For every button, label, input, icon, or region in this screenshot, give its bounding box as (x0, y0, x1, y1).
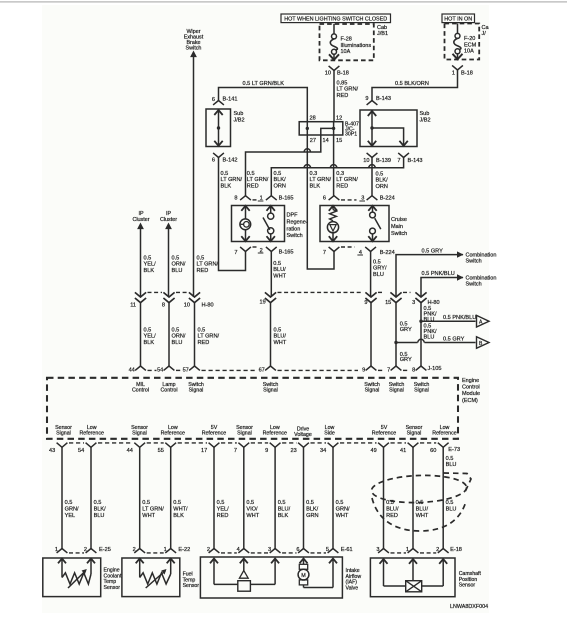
svg-text:J/B2: J/B2 (234, 118, 245, 124)
svg-text:9: 9 (364, 300, 367, 306)
junction block Sub J/B2 right (360, 110, 417, 147)
svg-text:J/: J/ (482, 31, 487, 37)
svg-text:LT GRN/: LT GRN/ (247, 177, 269, 183)
svg-text:0.5: 0.5 (197, 256, 205, 262)
wire 0.5 PNK/BLU from connector 3 to J-105 pin 8 (420, 303, 422, 366)
svg-text:WHT: WHT (416, 513, 429, 519)
svg-text:LT GRN/: LT GRN/ (197, 262, 219, 268)
svg-text:BLU/: BLU/ (273, 267, 286, 273)
svg-text:LT GRN/: LT GRN/ (142, 506, 164, 512)
hop of LT GRN/RED wire over pin-27 wire (304, 149, 310, 152)
CPS internal wire pin 2 (442, 559, 444, 586)
svg-text:0.5: 0.5 (94, 500, 102, 506)
svg-text:27: 27 (310, 138, 316, 144)
svg-text:BLU/: BLU/ (386, 506, 399, 512)
svg-text:0.3: 0.3 (310, 171, 318, 177)
svg-text:60: 60 (430, 448, 436, 454)
junction block Sub J/B2 left (206, 109, 231, 147)
svg-text:Main: Main (391, 224, 403, 230)
svg-text:6: 6 (296, 547, 299, 553)
ECM pin 34 (328, 443, 339, 448)
wire 0.5 BLK/GRN ECM to sensor at x303.5 (303, 447, 305, 548)
svg-text:Cruise: Cruise (391, 217, 407, 223)
svg-text:LT GRN/: LT GRN/ (337, 87, 359, 93)
connector E-61 pin 4 (238, 549, 249, 553)
svg-text:LT GRN/: LT GRN/ (198, 334, 220, 340)
connector E-61 pin 6 (298, 549, 309, 553)
svg-text:B-224: B-224 (380, 196, 395, 202)
connector B-224 pin 6 (329, 196, 340, 200)
svg-text:RED: RED (198, 340, 210, 346)
svg-text:15: 15 (336, 138, 342, 144)
svg-text:14: 14 (323, 138, 329, 144)
wire from connector 9 to J-105 pin 9 (370, 303, 372, 366)
svg-text:Switch: Switch (466, 258, 482, 264)
svg-text:WHT: WHT (336, 513, 349, 519)
arrow to IP Cluster left (137, 223, 144, 230)
svg-text:H-80: H-80 (202, 302, 214, 308)
sensor box Fuel Temp Sensor (122, 558, 180, 597)
svg-text:B-143: B-143 (376, 96, 391, 102)
svg-text:0.5: 0.5 (278, 500, 286, 506)
svg-text:0.5: 0.5 (373, 260, 381, 266)
svg-text:B-143: B-143 (408, 158, 423, 164)
svg-text:9: 9 (362, 368, 365, 374)
svg-text:B-139: B-139 (376, 158, 391, 164)
connector B-141 pin 6 (213, 101, 224, 105)
ECM pin 60 (438, 443, 449, 448)
ECM pin 7 (238, 443, 249, 448)
svg-text:YEL/: YEL/ (144, 334, 157, 340)
connector B-165 pin 1 (underlined) (266, 196, 277, 200)
wire 0.5 BLU/WHT from connector 19 to ECM pin 67 (270, 303, 272, 366)
ECM pin 67 (265, 366, 276, 370)
shielded cable symbol around camshaft sensor wires (371, 474, 467, 504)
svg-text:Signal: Signal (365, 387, 380, 393)
connector E-18 pin 1 (408, 549, 419, 553)
svg-text:2: 2 (207, 547, 210, 553)
wire 0.5 BLK/ORN from B-18 pin 1 to B-143 pin 9 (372, 70, 458, 92)
wire 0.5 LT GRN/WHT ECM to sensor at x139.7 (139, 447, 141, 548)
svg-text:11: 11 (130, 302, 136, 308)
svg-text:Control: Control (462, 385, 480, 391)
sensor box Camshaft Position Sensor (370, 558, 455, 597)
wire 0.5 YEL/RED ECM to sensor at x214 (213, 447, 215, 548)
ECM pin 54 (164, 366, 175, 370)
wire 0.5 GRY from connector 15 to J-105 pin 7 (395, 303, 397, 366)
connector E-18 pin 3 (378, 549, 389, 553)
svg-text:10: 10 (325, 71, 331, 77)
svg-text:Side: Side (324, 431, 335, 437)
svg-text:BLK: BLK (278, 513, 289, 519)
svg-text:GRY/: GRY/ (373, 266, 387, 272)
svg-text:BLU/: BLU/ (274, 334, 287, 340)
thermistor FTS (139, 559, 141, 578)
connector B-143 pin 9 (367, 101, 378, 105)
svg-text:57: 57 (183, 368, 189, 374)
connector E-61 pin 3 (270, 549, 281, 553)
svg-text:0.5: 0.5 (336, 500, 344, 506)
svg-text:Signal: Signal (189, 387, 204, 393)
svg-text:Cluster: Cluster (160, 217, 177, 223)
thermistor ECT (61, 559, 63, 578)
svg-text:GRY: GRY (400, 357, 412, 363)
ECM pin 44 (135, 366, 146, 370)
wire 0.5 GRY/BLU from B-224 pin 4 to connector 9 (370, 252, 372, 298)
svg-text:ORN/: ORN/ (172, 262, 186, 268)
svg-text:2: 2 (133, 547, 136, 553)
svg-text:Cluster: Cluster (132, 217, 149, 223)
IAF internal wire pin 5 (332, 559, 334, 588)
connector E-25 pin 1 (57, 549, 68, 553)
connector B-18 pin 10 (329, 66, 340, 71)
svg-text:Reference: Reference (432, 431, 456, 437)
svg-text:0.5: 0.5 (198, 328, 206, 334)
svg-text:0.3: 0.3 (336, 171, 344, 177)
svg-text:0.5: 0.5 (274, 328, 282, 334)
inline connector H-80 pin 3 (415, 292, 426, 297)
wire 0.5 GRN/YEL ECM to sensor at x62 (61, 447, 63, 548)
DPF switch contact (267, 206, 275, 211)
svg-text:Reference: Reference (79, 431, 103, 437)
ECM pin 43 (57, 443, 68, 448)
junction dot 0.5 GRY to off-page B (394, 341, 397, 344)
svg-text:BLK: BLK (173, 513, 184, 519)
svg-text:Sensor: Sensor (104, 585, 121, 591)
svg-text:10A: 10A (464, 49, 474, 55)
connector J-105 pin 8 (416, 366, 427, 370)
CPS pickup coil element (crossed box) (412, 559, 414, 581)
svg-text:ORN: ORN (274, 183, 286, 189)
svg-text:0.5 PNK/BLU: 0.5 PNK/BLU (422, 271, 455, 277)
dashed links H-80 pins 11-8-10 (148, 291, 163, 293)
svg-text:B-18: B-18 (461, 71, 473, 77)
inline connector pin 15 (390, 292, 401, 297)
Sub J/B2 right internal wires with arrows (371, 111, 373, 146)
svg-text:Sub: Sub (420, 111, 430, 117)
svg-text:49: 49 (370, 448, 376, 454)
module box Engine Control Module ECM (dashed) (47, 378, 458, 439)
ECM pin 41 (408, 443, 419, 448)
svg-text:3: 3 (376, 547, 379, 553)
svg-text:7: 7 (397, 158, 400, 164)
svg-text:0.5: 0.5 (144, 256, 152, 262)
connector E-25 pin 2 (86, 549, 97, 553)
svg-text:Regene-: Regene- (287, 219, 308, 225)
svg-text:Signal: Signal (263, 387, 278, 393)
svg-text:E-22: E-22 (178, 547, 190, 553)
svg-text:BLU/: BLU/ (416, 506, 429, 512)
ECM pin 9 (270, 443, 281, 448)
svg-text:BLK/: BLK/ (274, 177, 287, 183)
svg-text:B-142: B-142 (223, 158, 238, 164)
svg-text:10A: 10A (341, 49, 351, 55)
wire 0.5 WHT/BLK ECM to sensor at x170.7 (170, 447, 172, 548)
svg-text:43: 43 (49, 448, 55, 454)
Cruise switch illumination lamp with resistor (329, 206, 337, 211)
svg-text:Reference: Reference (263, 431, 287, 437)
svg-text:F-28: F-28 (341, 37, 352, 43)
svg-text:WHT: WHT (274, 340, 287, 346)
svg-text:0.5: 0.5 (172, 256, 180, 262)
dashed link between B-224 pins 6 and 3 (341, 199, 357, 201)
svg-text:Signal: Signal (237, 431, 252, 437)
off-page reference triangle A (477, 315, 490, 327)
ECM pin 44 (134, 443, 145, 448)
scan page tint (42, 5, 489, 613)
svg-text:BLK: BLK (221, 183, 232, 189)
IAF motor M (303, 559, 305, 565)
svg-text:0.85: 0.85 (337, 81, 348, 87)
junction connector B-407 J/C-30P1 (299, 122, 343, 135)
dashed link between B-224 pins 7 and 4 (341, 246, 355, 248)
junction dot 0.5 PNK/BLU to off-page A (419, 320, 422, 323)
svg-text:17: 17 (201, 448, 207, 454)
svg-text:54: 54 (78, 448, 84, 454)
svg-text:H-80: H-80 (428, 300, 440, 306)
svg-text:Reference: Reference (372, 431, 396, 437)
arrow to IP Cluster right (165, 223, 172, 230)
svg-text:Signal: Signal (414, 387, 429, 393)
svg-text:Signal: Signal (132, 431, 147, 437)
wire 0.5 BLU ECM pin 60 to camshaft sensor pin 2 (442, 447, 444, 548)
connector B-18 pin 1 (452, 65, 463, 70)
switch box DPF Regeneration Switch (232, 206, 285, 242)
connector B-224 pin 7 (329, 247, 340, 252)
svg-text:B-165: B-165 (279, 249, 294, 255)
svg-text:GRN/: GRN/ (336, 506, 350, 512)
svg-text:0.5: 0.5 (221, 171, 229, 177)
svg-text:WHT/: WHT/ (173, 506, 188, 512)
svg-text:Switch: Switch (466, 281, 482, 287)
svg-text:9: 9 (265, 448, 268, 454)
svg-text:0.5: 0.5 (274, 171, 282, 177)
svg-text:E-18: E-18 (450, 547, 462, 553)
svg-text:YEL/: YEL/ (217, 506, 230, 512)
svg-text:LNWA8DXF004: LNWA8DXF004 (450, 604, 488, 610)
ECM pin 57 (189, 366, 200, 370)
svg-text:3: 3 (412, 300, 415, 306)
wire 0.5 LT GRN/BLK from B-142 to DPF switch pin 7 (219, 158, 246, 271)
svg-text:3: 3 (268, 547, 271, 553)
svg-text:0.5: 0.5 (172, 328, 180, 334)
wire 0.5 LT GRN/RED from connector 10 to ECM pin 57 (194, 303, 196, 366)
svg-text:7: 7 (323, 250, 326, 256)
svg-text:Valve: Valve (346, 585, 359, 591)
valve box Intake Airflow IAF Valve (200, 557, 342, 598)
ECM pin 54 (86, 443, 97, 448)
svg-text:BLU/: BLU/ (278, 506, 291, 512)
wire 0.5 PNK/BLU from Combination Switch to connector 3 (421, 278, 463, 298)
svg-text:0.5: 0.5 (65, 500, 73, 506)
svg-text:Control: Control (160, 387, 177, 393)
svg-text:0.5: 0.5 (273, 261, 281, 267)
inline connector H-80 pin 11 (135, 292, 146, 297)
fuse box Cab J/B (dashed) (445, 24, 480, 60)
svg-text:BLK: BLK (310, 183, 321, 189)
svg-text:BLK: BLK (144, 340, 155, 346)
svg-text:44: 44 (129, 368, 135, 374)
connector E-22 pin 1 (165, 549, 176, 553)
svg-text:44: 44 (127, 448, 133, 454)
ECM pin 23 (298, 443, 309, 448)
svg-text:7: 7 (387, 368, 390, 374)
svg-text:34: 34 (320, 448, 326, 454)
Sub J/B2 left internal wire with arrows (218, 110, 220, 146)
svg-text:55: 55 (158, 448, 164, 454)
svg-text:BLU: BLU (172, 268, 183, 274)
J/C internal wire left with junction dot (306, 122, 308, 135)
svg-text:10: 10 (184, 302, 190, 308)
inline connector pin 19 (265, 292, 276, 297)
wire 0.5 BLU/WHT from B-165 pin 2 to connector 19 (270, 252, 272, 298)
svg-text:67: 67 (259, 368, 265, 374)
svg-text:15: 15 (385, 300, 391, 306)
wire 0.5 VIO/WHT ECM to sensor at x243.8 (243, 447, 245, 548)
connector E-61 pin 2 (209, 549, 220, 553)
svg-text:LT GRN/: LT GRN/ (310, 177, 332, 183)
ECM pin 55 (165, 443, 176, 448)
svg-text:J-105: J-105 (428, 366, 442, 372)
wire 0.5 GRY to off-page reference B (396, 342, 418, 344)
svg-text:BLU: BLU (94, 513, 105, 519)
svg-text:5: 5 (326, 547, 329, 553)
svg-text:RED: RED (386, 513, 398, 519)
wire 0.5 BLK/BLU ECM to sensor at x91 (90, 447, 92, 548)
connector B-165 pin 8 (240, 196, 251, 200)
svg-text:YEL/: YEL/ (144, 262, 157, 268)
header box HOT WHEN LIGHTING SWITCH CLOSED (281, 14, 391, 23)
connector E-22 pin 2 (134, 549, 145, 553)
svg-text:23: 23 (290, 448, 296, 454)
connector J-105 pin 9 (366, 366, 377, 370)
svg-text:6: 6 (212, 97, 215, 103)
svg-text:9: 9 (365, 96, 368, 102)
inline connector pin 9 (365, 292, 376, 297)
svg-text:Illuminations: Illuminations (341, 43, 372, 49)
svg-text:0.5: 0.5 (142, 500, 150, 506)
svg-text:HOT IN ON: HOT IN ON (444, 17, 472, 23)
svg-text:1: 1 (406, 547, 409, 553)
wire 0.5 BLK/ORN from B-139 pin 10 to B-224 pin 3 (371, 158, 373, 196)
svg-text:Signal: Signal (407, 431, 422, 437)
svg-text:Signal: Signal (389, 387, 404, 393)
svg-text:0.5 PNK/BLU: 0.5 PNK/BLU (443, 315, 476, 321)
svg-text:0.5 LT GRN/BLK: 0.5 LT GRN/BLK (243, 81, 285, 87)
connector J-105 pin 7 (391, 366, 402, 370)
svg-text:ORN/: ORN/ (172, 334, 186, 340)
svg-text:E-73: E-73 (448, 447, 460, 453)
svg-text:0.5: 0.5 (446, 456, 454, 462)
svg-text:HOT WHEN LIGHTING SWITCH CLOSE: HOT WHEN LIGHTING SWITCH CLOSED (284, 17, 387, 23)
svg-text:WHT: WHT (246, 513, 259, 519)
connector B-143 pin 7 (398, 153, 409, 158)
svg-text:LT GRN/: LT GRN/ (336, 177, 358, 183)
switch box Cruise Main Switch (320, 206, 389, 242)
svg-text:VIO/: VIO/ (246, 506, 258, 512)
svg-text:BLK: BLK (144, 268, 155, 274)
svg-text:6: 6 (323, 196, 326, 202)
hop of BLK/ORN bus over B-139 wire (369, 165, 375, 168)
svg-text:BLU: BLU (373, 272, 384, 278)
dashed link between B-165 pins 7 and 2 (253, 246, 258, 248)
svg-text:M: M (301, 573, 306, 579)
svg-text:0.5: 0.5 (246, 500, 254, 506)
wire 0.5 BLK/ORN bus from B-143 pin 7 to B-165 pin 1 (271, 158, 403, 196)
svg-text:BLK/: BLK/ (376, 178, 389, 184)
svg-text:J/B1: J/B1 (377, 31, 388, 37)
dashed link from pin 19 to pin 9 (278, 291, 362, 293)
svg-text:1: 1 (452, 71, 455, 77)
svg-text:Module: Module (462, 391, 480, 397)
dashed links ECM top row (148, 369, 157, 371)
wire 0.85 LT GRN/RED from F-28 to J/C B-407 pin 12 (333, 80, 335, 122)
hop of BLK/ORN bus over pin-15 wire (330, 165, 336, 168)
svg-text:LT GRN/: LT GRN/ (221, 177, 243, 183)
svg-text:10: 10 (363, 158, 369, 164)
svg-text:RED: RED (337, 93, 349, 99)
IAF internal wire pin 3 (274, 559, 276, 585)
svg-text:1: 1 (55, 547, 58, 553)
svg-text:Sub: Sub (234, 111, 244, 117)
connector B-165 pin 7 (240, 247, 251, 252)
svg-text:RED: RED (247, 183, 259, 189)
wire 0.5 BLU/WHT ECM to sensor at x413 (412, 447, 414, 548)
svg-text:Sensor: Sensor (183, 583, 200, 589)
top border line (0, 1, 567, 3)
svg-text:0.5: 0.5 (247, 171, 255, 177)
inline connector H-80 pin 8 (163, 292, 174, 297)
svg-text:30P1: 30P1 (345, 132, 357, 138)
svg-text:ORN: ORN (376, 184, 388, 190)
connector B-142 pin 6 (213, 153, 224, 158)
svg-text:BLK/: BLK/ (94, 506, 107, 512)
arrow to Wiper Exhaust Brake Switch (190, 51, 197, 58)
svg-text:0.5 GRY: 0.5 GRY (422, 248, 444, 254)
svg-text:0.5: 0.5 (376, 172, 384, 178)
svg-text:BLU: BLU (424, 335, 435, 341)
svg-text:8: 8 (234, 196, 237, 202)
svg-text:1: 1 (164, 547, 167, 553)
svg-text:Switch: Switch (391, 231, 407, 237)
svg-text:0.5: 0.5 (446, 500, 454, 506)
svg-text:B-141: B-141 (223, 97, 238, 103)
wire 0.5 LT GRN/BLK from B-141 to J/C B-407 pin 28 (219, 88, 308, 123)
svg-text:7: 7 (234, 448, 237, 454)
dashed link between B-165 pins 8 and 1 (253, 199, 258, 201)
svg-text:0.5: 0.5 (217, 500, 225, 506)
svg-text:Voltage: Voltage (294, 432, 312, 438)
svg-text:BLU: BLU (446, 506, 457, 512)
svg-text:Switch: Switch (287, 233, 303, 239)
svg-text:BLU: BLU (172, 340, 183, 346)
wire 0.5 YEL/BLK from connector 11 to IP Cluster (140, 229, 142, 297)
connector E-18 pin 2 (438, 549, 449, 553)
svg-text:0.5: 0.5 (144, 328, 152, 334)
svg-text:DPF: DPF (287, 213, 299, 219)
IAF internal wire pin 2 (213, 559, 215, 585)
connector B-224 pin 4 (underlined) (365, 247, 376, 252)
svg-text:0.5 BLK/ORN: 0.5 BLK/ORN (395, 81, 429, 87)
svg-text:ECM: ECM (464, 42, 477, 48)
wire 0.5 LT GRN/RED from wiper switch down to H-80 pin 10 (193, 57, 195, 298)
fuse box Cab J/B1 (dashed) (320, 24, 374, 60)
dashed links pins 9-15-3 (378, 291, 384, 293)
connector E-61 pin 5 (328, 549, 339, 553)
svg-text:0.5: 0.5 (173, 500, 181, 506)
IAF position sensor element (triangle and square) (243, 559, 245, 571)
connector B-224 pin 3 (underlined) (367, 196, 378, 200)
